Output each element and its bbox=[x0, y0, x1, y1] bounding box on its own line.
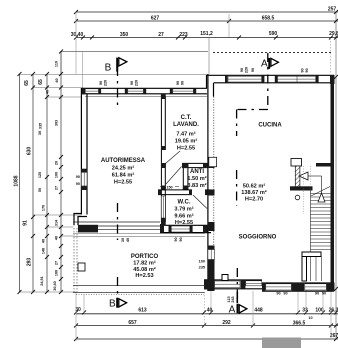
stair mid wall bbox=[290, 186, 313, 190]
internal dim 150 bbox=[160, 186, 179, 188]
windows bottom wall bbox=[215, 281, 327, 290]
svg-text:293: 293 bbox=[27, 258, 33, 267]
svg-text:24.25 m²: 24.25 m² bbox=[112, 165, 135, 172]
svg-text:20: 20 bbox=[55, 161, 59, 165]
svg-text:30: 30 bbox=[38, 131, 42, 135]
svg-text:90: 90 bbox=[276, 292, 280, 296]
top dimension line 1 bbox=[76, 12, 338, 38]
svg-text:90: 90 bbox=[301, 68, 305, 72]
stair lower flight lines bbox=[311, 257, 322, 282]
svg-text:27: 27 bbox=[55, 186, 59, 190]
svg-text:90: 90 bbox=[179, 237, 183, 241]
svg-text:B: B bbox=[105, 63, 112, 74]
svg-text:19.05 m²: 19.05 m² bbox=[175, 138, 198, 145]
right wall bbox=[331, 75, 335, 289]
svg-text:3.83 m²: 3.83 m² bbox=[187, 182, 206, 189]
svg-text:314: 314 bbox=[55, 219, 59, 226]
svg-text:29,8: 29,8 bbox=[329, 31, 338, 37]
right building top wall bbox=[207, 75, 335, 83]
bottom dim ticks bbox=[74, 311, 333, 342]
svg-text:40: 40 bbox=[46, 90, 50, 94]
svg-text:40: 40 bbox=[207, 308, 213, 314]
svg-text:H=2.55: H=2.55 bbox=[175, 220, 193, 226]
svg-text:H=2.70: H=2.70 bbox=[245, 197, 263, 203]
svg-text:24,91: 24,91 bbox=[40, 276, 44, 286]
svg-text:50: 50 bbox=[38, 188, 42, 192]
portico bottom lines bbox=[73, 286, 205, 293]
left chain lines bbox=[20, 52, 62, 293]
stair diagonal bbox=[311, 187, 330, 197]
svg-text:257: 257 bbox=[328, 7, 337, 13]
svg-text:138.67 m²: 138.67 m² bbox=[241, 189, 267, 196]
right top wall blocks bbox=[225, 75, 335, 84]
svg-text:H=2.53: H=2.53 bbox=[135, 273, 153, 279]
svg-text:27: 27 bbox=[55, 261, 59, 265]
left triangle arrow bbox=[299, 172, 308, 180]
svg-text:50.62 m²: 50.62 m² bbox=[243, 183, 266, 190]
svg-text:151,2: 151,2 bbox=[200, 31, 213, 37]
svg-text:90: 90 bbox=[322, 292, 326, 296]
room labels bbox=[101, 115, 282, 279]
svg-text:W.C.: W.C. bbox=[178, 200, 191, 206]
WC window in internal wall bbox=[161, 196, 165, 218]
garage top wall bbox=[82, 88, 207, 94]
svg-text:61.84 m²: 61.84 m² bbox=[112, 172, 135, 179]
opening in soggiorno wall (door niche) bbox=[209, 157, 217, 166]
connector wall between buildings bbox=[207, 75, 214, 97]
boundary line right (dotted) bbox=[213, 52, 331, 54]
dotted guides bbox=[304, 166, 311, 214]
garage door opening bbox=[73, 222, 160, 229]
svg-text:366.5: 366.5 bbox=[293, 321, 306, 327]
svg-text:90: 90 bbox=[315, 292, 319, 296]
svg-text:10: 10 bbox=[308, 316, 312, 320]
windows top wall right bbox=[228, 76, 316, 82]
section A bottom stem bbox=[236, 292, 238, 303]
svg-text:65: 65 bbox=[38, 79, 44, 85]
svg-text:LAVAND.: LAVAND. bbox=[173, 122, 199, 128]
svg-text:30,40: 30,40 bbox=[53, 281, 57, 291]
stair lower walls bbox=[302, 252, 321, 281]
svg-text:AUTORIMESSA: AUTORIMESSA bbox=[101, 158, 146, 164]
bottom wall right building bbox=[204, 280, 334, 291]
bottom dimension lines bbox=[76, 314, 338, 339]
svg-text:90: 90 bbox=[130, 81, 134, 85]
garage top wall corner block bbox=[81, 88, 85, 94]
svg-text:C.T.: C.T. bbox=[181, 115, 192, 121]
svg-text:1.50 m²: 1.50 m² bbox=[187, 175, 206, 182]
ANTI left wall bbox=[183, 168, 188, 190]
internal wall garage|CT bbox=[161, 94, 165, 222]
svg-text:292: 292 bbox=[222, 320, 231, 326]
svg-text:658.5: 658.5 bbox=[262, 16, 275, 22]
svg-text:125: 125 bbox=[38, 172, 42, 178]
left chain labels (rotated) bbox=[14, 79, 45, 266]
garage left wall blocks bbox=[81, 169, 88, 190]
section mark B top bbox=[105, 58, 127, 74]
svg-text:3.79 m²: 3.79 m² bbox=[174, 206, 193, 213]
WC bottom wall bbox=[160, 225, 211, 232]
svg-text:H=2.55: H=2.55 bbox=[114, 180, 132, 186]
stair treads bbox=[311, 191, 331, 253]
svg-text:90: 90 bbox=[76, 175, 80, 179]
svg-text:40: 40 bbox=[42, 239, 46, 243]
svg-text:150: 150 bbox=[166, 186, 172, 190]
CT bottom wall bbox=[165, 163, 207, 167]
svg-text:657: 657 bbox=[128, 320, 137, 326]
section mark A top bbox=[261, 58, 278, 70]
window in soggiorno wall bbox=[208, 250, 215, 260]
svg-text:7.47 m²: 7.47 m² bbox=[176, 131, 195, 138]
svg-text:9.66 m²: 9.66 m² bbox=[174, 213, 193, 220]
svg-text:148: 148 bbox=[42, 248, 46, 254]
stair hatch strip bbox=[295, 166, 300, 187]
svg-text:100: 100 bbox=[55, 270, 59, 276]
window labels top wall bbox=[99, 80, 185, 86]
section line B bbox=[117, 67, 119, 299]
svg-text:90: 90 bbox=[174, 237, 178, 241]
svg-text:170: 170 bbox=[42, 205, 46, 211]
small circle bbox=[295, 195, 300, 200]
svg-text:243: 243 bbox=[231, 296, 235, 302]
svg-text:33: 33 bbox=[302, 308, 308, 314]
svg-text:40: 40 bbox=[55, 236, 59, 240]
svg-text:90: 90 bbox=[176, 81, 180, 85]
pilaster above bottom wall bbox=[222, 275, 228, 281]
svg-text:17.82 m²: 17.82 m² bbox=[133, 260, 156, 267]
svg-text:223: 223 bbox=[179, 32, 188, 38]
svg-text:ANTI: ANTI bbox=[190, 169, 204, 175]
svg-text:90: 90 bbox=[251, 68, 255, 72]
svg-text:26,3: 26,3 bbox=[329, 308, 338, 314]
stair landing box bbox=[291, 159, 302, 167]
svg-text:448: 448 bbox=[254, 308, 263, 314]
bottom extension lines bbox=[76, 289, 331, 341]
top dim labels bbox=[71, 7, 338, 39]
top dim ticks bbox=[74, 10, 333, 40]
svg-text:220: 220 bbox=[135, 80, 139, 86]
svg-text:613: 613 bbox=[138, 308, 147, 314]
window in bottom wall bbox=[171, 226, 190, 232]
left tick rows bbox=[20, 75, 208, 293]
svg-text:B: B bbox=[109, 299, 116, 310]
svg-text:65: 65 bbox=[24, 80, 30, 86]
garage left jog bbox=[74, 214, 87, 226]
garage top wall window jambs bbox=[99, 88, 197, 94]
portico top step lines bbox=[73, 234, 205, 237]
svg-text:110: 110 bbox=[55, 61, 59, 67]
svg-text:220: 220 bbox=[104, 80, 108, 86]
WC door swing bbox=[193, 195, 207, 209]
svg-text:350: 350 bbox=[120, 32, 129, 38]
svg-text:100: 100 bbox=[55, 172, 59, 178]
svg-text:CUCINA: CUCINA bbox=[258, 123, 282, 129]
inner wall line under top wall bbox=[85, 96, 207, 98]
svg-text:100: 100 bbox=[199, 260, 205, 264]
svg-text:40: 40 bbox=[55, 78, 59, 82]
svg-text:90: 90 bbox=[240, 68, 244, 72]
svg-text:90: 90 bbox=[181, 81, 185, 85]
svg-text:40: 40 bbox=[126, 238, 130, 242]
garage top wall windows bbox=[86, 89, 194, 94]
svg-text:30: 30 bbox=[121, 238, 125, 242]
svg-text:90: 90 bbox=[99, 81, 103, 85]
garage left wall window bbox=[81, 172, 87, 186]
portico left edge bbox=[74, 228, 77, 293]
svg-text:303: 303 bbox=[55, 120, 59, 126]
svg-text:100: 100 bbox=[315, 308, 324, 314]
svg-text:27: 27 bbox=[158, 32, 164, 38]
svg-text:630: 630 bbox=[27, 147, 33, 156]
gray scale bar bottom bbox=[262, 338, 301, 348]
svg-text:91: 91 bbox=[23, 220, 29, 226]
svg-text:A: A bbox=[261, 59, 268, 70]
svg-text:220: 220 bbox=[245, 67, 249, 73]
WC top wall bbox=[158, 190, 211, 195]
svg-text:90: 90 bbox=[305, 68, 309, 72]
garage left wall bbox=[81, 88, 87, 215]
stair up arrow triangle bbox=[318, 193, 325, 202]
svg-text:30,40: 30,40 bbox=[71, 32, 84, 38]
soggiorno left wall bbox=[207, 74, 209, 291]
svg-text:SOGGIORNO: SOGGIORNO bbox=[239, 235, 277, 241]
section mark B bottom bbox=[109, 298, 127, 310]
stair top wall bbox=[316, 163, 334, 167]
bottom dim labels bbox=[75, 307, 338, 339]
portico column bbox=[78, 263, 85, 271]
svg-text:235: 235 bbox=[199, 266, 205, 270]
svg-text:A: A bbox=[229, 305, 236, 316]
section line A bbox=[237, 53, 269, 295]
svg-text:335: 335 bbox=[39, 123, 43, 129]
boundary line left (solid) bbox=[61, 51, 208, 53]
svg-text:90: 90 bbox=[76, 182, 80, 186]
CT door swings bbox=[166, 151, 181, 164]
svg-text:H=2.55: H=2.55 bbox=[177, 146, 195, 152]
svg-text:627: 627 bbox=[151, 16, 160, 22]
svg-text:45.08 m²: 45.08 m² bbox=[133, 266, 156, 273]
svg-text:90: 90 bbox=[283, 292, 287, 296]
svg-text:1088: 1088 bbox=[14, 175, 20, 186]
top extension lines bbox=[61, 12, 331, 88]
soggiorno wall blocks bbox=[208, 160, 215, 291]
garage bottom wall solid block bbox=[78, 225, 98, 233]
svg-text:PORTICO: PORTICO bbox=[131, 254, 159, 260]
svg-text:590: 590 bbox=[269, 31, 278, 37]
section mark A bottom bbox=[229, 304, 247, 316]
left chain ticks bbox=[18, 50, 64, 295]
svg-text:115: 115 bbox=[227, 296, 231, 302]
